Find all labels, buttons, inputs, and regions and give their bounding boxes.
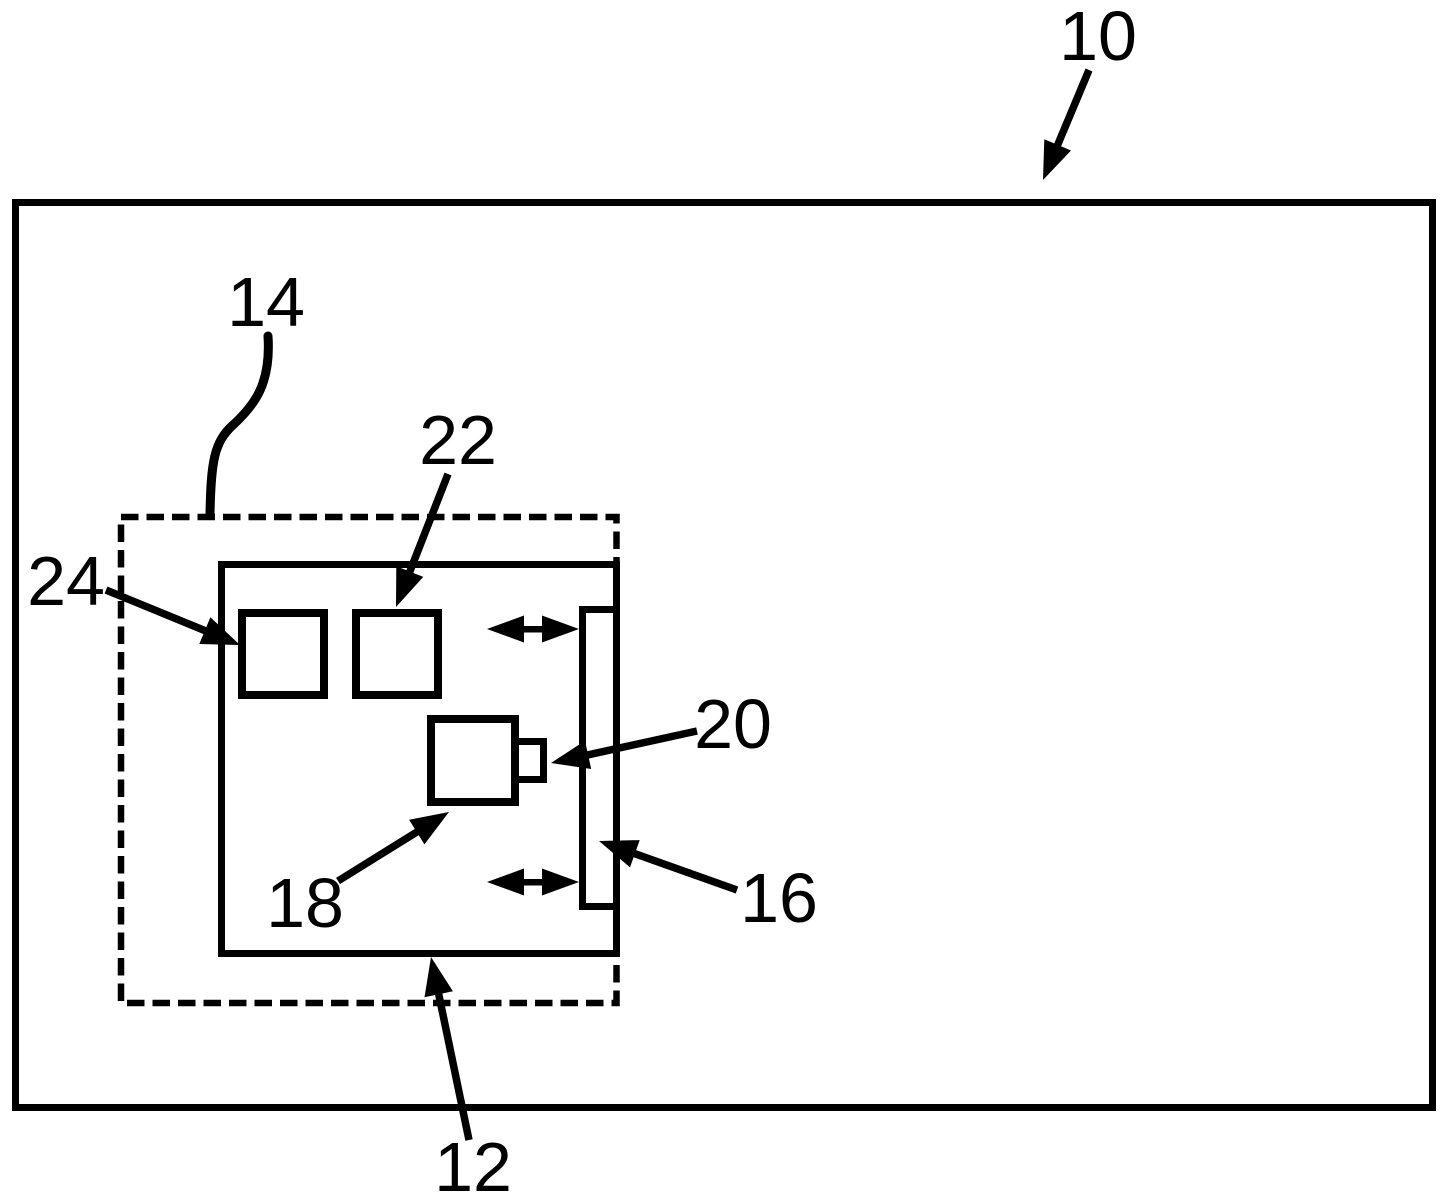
leader arrow 12 xyxy=(425,957,470,1140)
label 24 xyxy=(27,542,105,620)
dashed region 14 xyxy=(121,517,617,1003)
component square 22 xyxy=(356,613,438,695)
svg-text:18: 18 xyxy=(266,864,344,942)
double-headed arrow top xyxy=(487,616,579,643)
svg-text:14: 14 xyxy=(227,263,305,341)
nub 20 xyxy=(516,742,544,780)
svg-text:22: 22 xyxy=(419,401,497,479)
component square 24 xyxy=(242,613,324,695)
leader arrow 20 xyxy=(551,731,697,769)
outer rectangle 10 (device boundary) xyxy=(16,203,1433,1108)
svg-text:10: 10 xyxy=(1059,0,1137,75)
label 16 xyxy=(740,859,818,937)
tall slider rectangle 16 xyxy=(583,610,617,907)
leader squiggle 14 xyxy=(210,336,268,514)
double-headed arrow bottom xyxy=(487,869,579,896)
leader arrow 16 xyxy=(599,840,737,890)
svg-text:24: 24 xyxy=(27,542,105,620)
label 10 xyxy=(1059,0,1137,75)
label 18 xyxy=(266,864,344,942)
svg-text:20: 20 xyxy=(694,685,772,763)
inner module box 12 xyxy=(222,565,617,954)
leader arrow 10 xyxy=(1043,70,1089,180)
label 20 xyxy=(694,685,772,763)
leader arrow 18 xyxy=(338,812,449,881)
label 22 xyxy=(419,401,497,479)
label 12 xyxy=(434,1128,512,1202)
label 14 xyxy=(227,263,305,341)
svg-text:16: 16 xyxy=(740,859,818,937)
leader arrow 22 xyxy=(396,474,448,607)
svg-text:12: 12 xyxy=(434,1128,512,1202)
component square 18 xyxy=(431,719,515,802)
leader arrow 24 xyxy=(106,590,240,645)
